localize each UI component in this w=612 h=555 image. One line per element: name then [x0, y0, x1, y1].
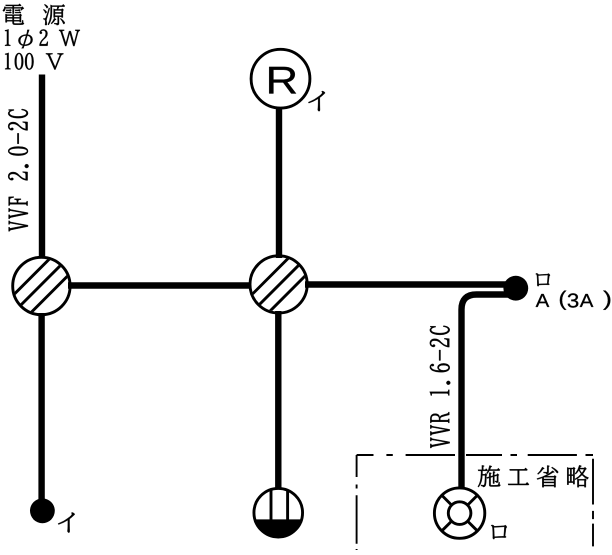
label: cable VVR 1.6-2C [430, 326, 451, 448]
wire: J2 down to ceiling light [275, 311, 281, 489]
switch イ (tumbler switch, filled dot) [30, 498, 55, 523]
outdoor light ロ (lamp with spokes) [434, 488, 484, 538]
label: power source 電源 1φ2W 100V [3, 4, 80, 70]
wire: J1 to J2 [68, 282, 252, 288]
junction box J2 (VVF joint box) [230, 252, 329, 316]
wire: VVR 1.6-2C down to outdoor light [462, 295, 511, 490]
wire: J1 down to switch イ [38, 313, 44, 503]
label: cable VVF 2.0-2C [8, 109, 28, 231]
label: ロ for outdoor light [491, 525, 507, 539]
label: イ for lamp R [308, 91, 325, 111]
boundary: construction-omitted area (chain line box) [357, 455, 593, 550]
automatic switch ロ A(3A), filled dot [503, 276, 528, 301]
junction box J1 (VVF joint box) [0, 254, 90, 318]
wire: J2 up to lamp receptacle R [276, 107, 282, 258]
label: ロ A(3A) [536, 273, 611, 309]
wire: J2 to automatic switch A(3A) [305, 281, 517, 287]
wire: power source feed VVF 2.0-2C [39, 75, 45, 261]
label: イ for switch [58, 512, 75, 532]
ceiling light (hanging rosette symbol) [254, 488, 303, 537]
lamp receptacle R (イ) [251, 49, 310, 108]
label: 施工省略 [478, 465, 589, 487]
